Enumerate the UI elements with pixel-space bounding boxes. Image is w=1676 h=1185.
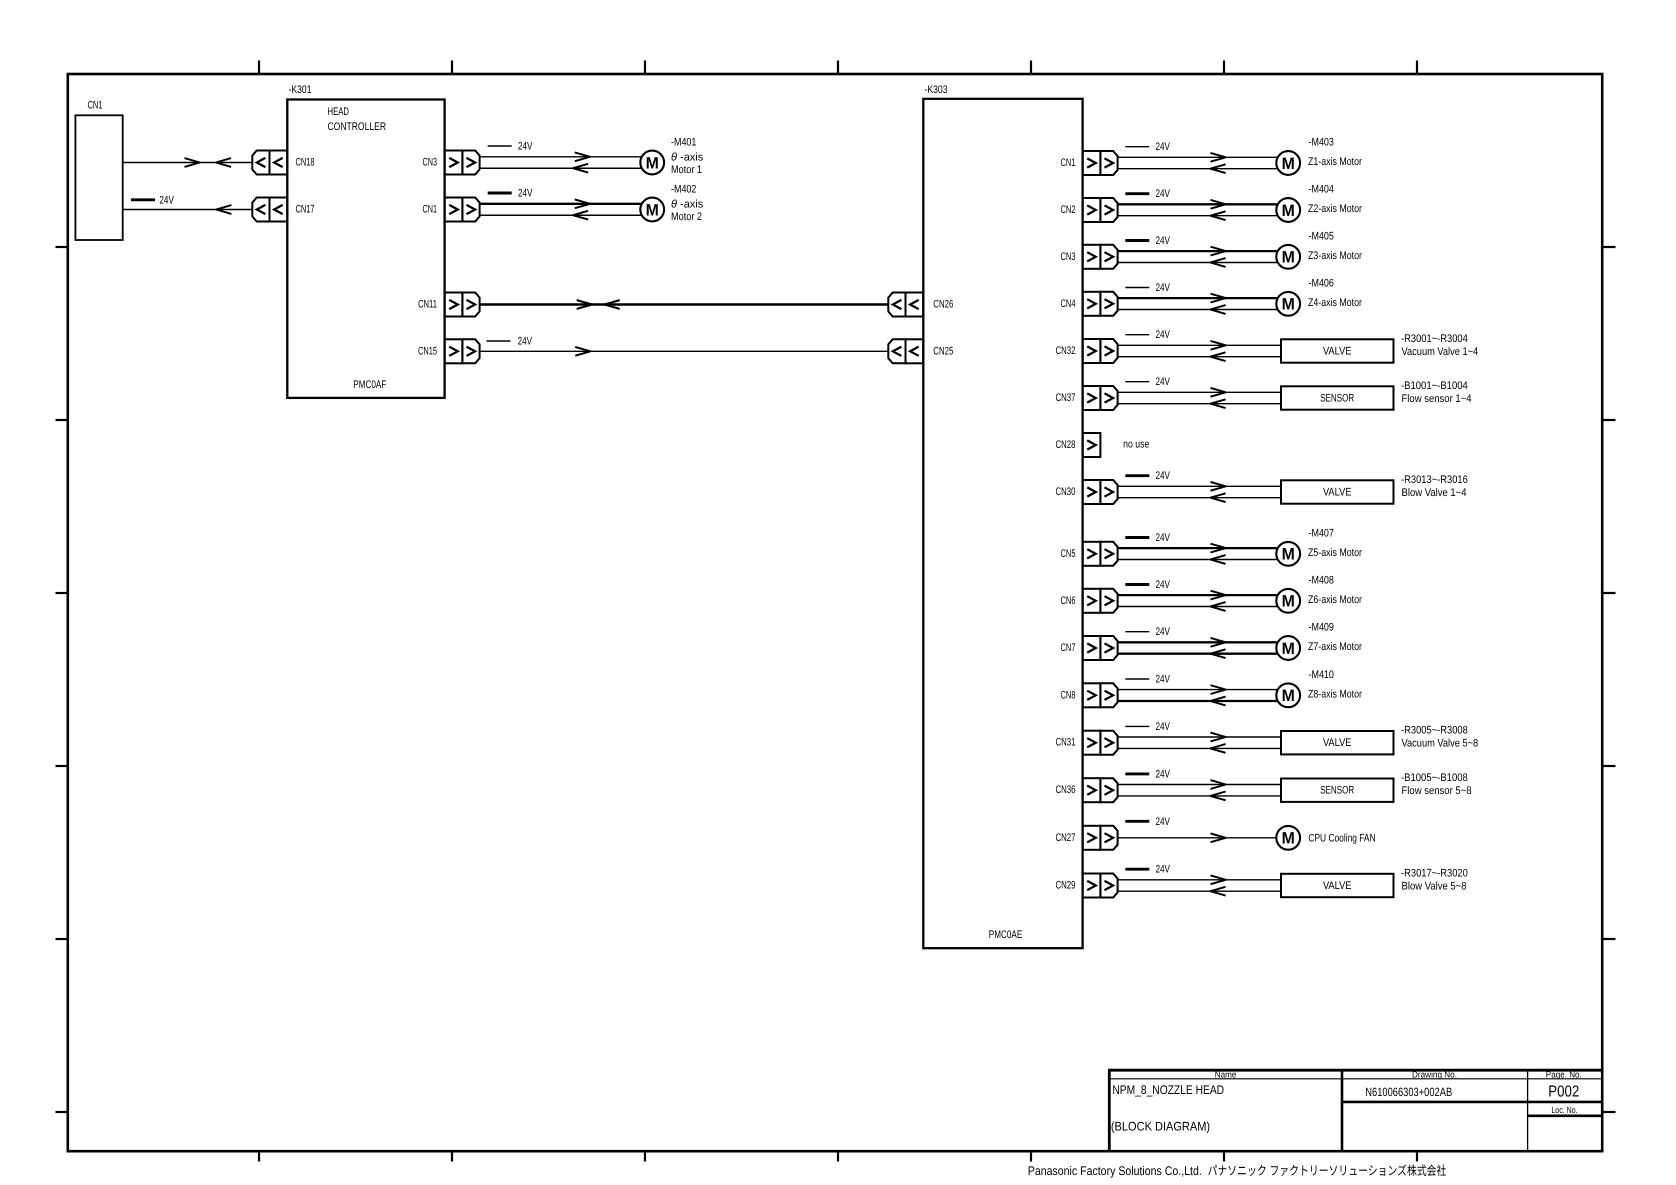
- svg-text:-M403: -M403: [1309, 137, 1334, 149]
- svg-text:VALVE: VALVE: [1323, 737, 1352, 749]
- svg-text:24V: 24V: [518, 141, 533, 153]
- connector K303 CN2: [1061, 198, 1118, 222]
- wire K303 to sensor group B1001-B1004 (24V pair): [1118, 376, 1281, 408]
- svg-text:24V: 24V: [1156, 470, 1171, 482]
- svg-text:SENSOR: SENSOR: [1320, 785, 1354, 797]
- sensor group B1005-B1008 -B1005~-B1008 Flow sensor 5~8: [1281, 772, 1472, 802]
- motor M407 Z5-axis Motor: [1276, 528, 1362, 566]
- svg-text:M: M: [646, 154, 659, 172]
- wire K303 to -M407 (24V pair): [1118, 532, 1277, 564]
- svg-text:24V: 24V: [1156, 376, 1171, 388]
- motor M401 theta-axis Motor 1: [640, 136, 703, 176]
- svg-text:CN26: CN26: [933, 299, 953, 311]
- svg-text:HEAD: HEAD: [328, 106, 350, 118]
- valve group R3017-R3020 -R3017~-R3020 Blow Valve 5~8: [1281, 867, 1468, 897]
- svg-text:24V: 24V: [1156, 188, 1171, 200]
- svg-text:M: M: [1282, 830, 1295, 848]
- svg-text:CN4: CN4: [1061, 298, 1076, 310]
- motor M406 Z4-axis Motor: [1276, 278, 1362, 316]
- wire K301 CN11 to K303 CN26: [480, 300, 889, 309]
- svg-text:CN18: CN18: [296, 157, 315, 169]
- svg-text:Panasonic Factory Solutions Co: Panasonic Factory Solutions Co.,Ltd.: [1028, 1164, 1202, 1178]
- svg-text:-B1001~-B1004: -B1001~-B1004: [1401, 380, 1468, 392]
- wire K303 to valve group R3017-R3020 (24V pair): [1118, 864, 1281, 896]
- wire K303 to -M403 (24V pair): [1118, 141, 1277, 173]
- svg-text:CN5: CN5: [1061, 548, 1076, 560]
- wire CN1 to K301 CN17, 24V: [123, 194, 253, 214]
- svg-text:CN11: CN11: [418, 299, 437, 311]
- svg-text:NPM_8_NOZZLE HEAD: NPM_8_NOZZLE HEAD: [1112, 1083, 1224, 1097]
- connector CN1 (external interface box): [75, 100, 122, 241]
- svg-text:SENSOR: SENSOR: [1320, 392, 1354, 404]
- svg-text:M: M: [1282, 155, 1295, 173]
- svg-text:Z2-axis Motor: Z2-axis Motor: [1308, 203, 1362, 215]
- svg-text:θ -axis: θ -axis: [671, 152, 704, 164]
- connector K303 CN37: [1056, 386, 1118, 410]
- svg-text:PMC0AE: PMC0AE: [989, 929, 1023, 941]
- svg-text:CN36: CN36: [1056, 784, 1076, 796]
- svg-text:-K303: -K303: [925, 84, 948, 96]
- svg-text:Z8-axis Motor: Z8-axis Motor: [1308, 689, 1362, 701]
- svg-text:CN17: CN17: [296, 204, 315, 216]
- connector K303 CN32: [1056, 339, 1118, 363]
- svg-text:CN2: CN2: [1061, 204, 1076, 216]
- valve group R3013-R3016 -R3013~-R3016 Blow Valve 1~4: [1281, 474, 1468, 504]
- motor M410 Z8-axis Motor: [1276, 669, 1362, 707]
- svg-text:Motor 2: Motor 2: [671, 211, 702, 223]
- svg-text:M: M: [1282, 296, 1295, 314]
- svg-text:24V: 24V: [1156, 721, 1171, 733]
- svg-text:24V: 24V: [159, 194, 174, 206]
- svg-text:Blow Valve 1~4: Blow Valve 1~4: [1402, 487, 1467, 499]
- sensor group B1001-B1004 -B1001~-B1004 Flow sensor 1~4: [1281, 380, 1472, 410]
- svg-text:(BLOCK DIAGRAM): (BLOCK DIAGRAM): [1111, 1120, 1210, 1134]
- svg-text:24V: 24V: [1156, 626, 1171, 638]
- motor M408 Z6-axis Motor: [1276, 575, 1362, 613]
- svg-text:CN32: CN32: [1056, 345, 1076, 357]
- svg-text:-M410: -M410: [1309, 669, 1334, 681]
- svg-text:M: M: [646, 201, 659, 219]
- wire K303 CN27 to CPU cooling fan, 24V: [1118, 816, 1277, 842]
- wire K301 CN3 to M401 (24V pair): [480, 141, 641, 173]
- svg-text:Blow Valve 5~8: Blow Valve 5~8: [1402, 881, 1467, 893]
- svg-text:24V: 24V: [1156, 329, 1171, 341]
- svg-text:Flow sensor 1~4: Flow sensor 1~4: [1402, 393, 1472, 405]
- svg-text:-M404: -M404: [1309, 184, 1334, 196]
- wire K303 to -M409 (24V pair): [1118, 626, 1277, 658]
- svg-text:24V: 24V: [1156, 532, 1171, 544]
- svg-text:θ -axis: θ -axis: [671, 199, 704, 211]
- svg-text:VALVE: VALVE: [1323, 486, 1352, 498]
- connector K301 CN17: [252, 198, 314, 222]
- connector K303 CN6: [1061, 589, 1118, 613]
- svg-text:24V: 24V: [1156, 141, 1171, 153]
- svg-text:-M402: -M402: [671, 183, 696, 195]
- svg-text:Flow sensor 5~8: Flow sensor 5~8: [1402, 785, 1472, 797]
- svg-text:Loc. No.: Loc. No.: [1551, 1105, 1577, 1115]
- svg-text:-M406: -M406: [1309, 278, 1334, 290]
- svg-text:-M401: -M401: [671, 136, 696, 148]
- svg-text:Z4-axis Motor: Z4-axis Motor: [1308, 297, 1362, 309]
- wire K303 to -M408 (24V pair): [1118, 579, 1277, 611]
- svg-text:24V: 24V: [1156, 816, 1171, 828]
- title block: [1108, 1069, 1602, 1151]
- connector K301 CN18: [252, 151, 314, 175]
- footer company name: [1028, 1164, 1447, 1178]
- connector K303 CN5: [1061, 542, 1118, 566]
- svg-text:24V: 24V: [1156, 235, 1171, 247]
- svg-text:P002: P002: [1548, 1083, 1579, 1100]
- wire K303 to valve group R3013-R3016 (24V pair): [1118, 470, 1281, 502]
- svg-text:-R3013~-R3016: -R3013~-R3016: [1401, 474, 1468, 486]
- svg-text:M: M: [1282, 202, 1295, 220]
- svg-text:Drawing No.: Drawing No.: [1412, 1069, 1457, 1079]
- svg-text:N610066303+002AB: N610066303+002AB: [1365, 1085, 1452, 1099]
- svg-text:-R3005~-R3008: -R3005~-R3008: [1401, 725, 1468, 737]
- svg-text:-M409: -M409: [1309, 622, 1334, 634]
- svg-text:24V: 24V: [1156, 768, 1171, 780]
- svg-text:CN28: CN28: [1056, 439, 1076, 451]
- connector K303 CN1: [1061, 151, 1118, 175]
- svg-text:CN37: CN37: [1056, 392, 1076, 404]
- svg-text:CN27: CN27: [1056, 832, 1076, 844]
- svg-text:CN29: CN29: [1056, 880, 1076, 892]
- wire K303 to -M410 (24V pair): [1118, 674, 1277, 706]
- svg-text:Name: Name: [1215, 1069, 1237, 1079]
- svg-text:Z6-axis Motor: Z6-axis Motor: [1308, 594, 1362, 606]
- wire K303 to valve group R3001-R3004 (24V pair): [1118, 329, 1281, 361]
- valve group R3005-R3008 -R3005~-R3008 Vacuum Valve 5~8: [1281, 725, 1478, 755]
- svg-text:CN1: CN1: [423, 204, 438, 216]
- valve group R3001-R3004 -R3001~-R3004 Vacuum Valve 1~4: [1281, 333, 1478, 363]
- wire K301 CN1 to M402 (24V pair): [480, 188, 641, 220]
- motor M403 Z1-axis Motor: [1276, 137, 1362, 175]
- svg-text:パナソニック ファクトリーソリューションズ株式会社: パナソニック ファクトリーソリューションズ株式会社: [1208, 1164, 1447, 1178]
- svg-text:CN31: CN31: [1056, 737, 1076, 749]
- svg-text:CPU Cooling FAN: CPU Cooling FAN: [1308, 832, 1375, 844]
- svg-text:PMC0AF: PMC0AF: [353, 379, 386, 391]
- connector K303 CN36: [1056, 778, 1118, 802]
- svg-text:M: M: [1282, 640, 1295, 658]
- svg-text:Vacuum Valve 5~8: Vacuum Valve 5~8: [1402, 738, 1479, 750]
- svg-text:24V: 24V: [518, 188, 533, 200]
- svg-text:CN25: CN25: [933, 345, 953, 357]
- svg-text:24V: 24V: [1156, 674, 1171, 686]
- svg-text:Z3-axis Motor: Z3-axis Motor: [1308, 250, 1362, 262]
- svg-text:CN6: CN6: [1061, 595, 1076, 607]
- svg-text:Vacuum Valve 1~4: Vacuum Valve 1~4: [1402, 346, 1479, 358]
- svg-text:M: M: [1282, 546, 1295, 564]
- motor CPU Cooling FAN: [1276, 826, 1375, 850]
- wire K303 to sensor group B1005-B1008 (24V pair): [1118, 768, 1281, 800]
- connector K303 CN31: [1056, 731, 1118, 755]
- svg-text:24V: 24V: [518, 336, 533, 348]
- svg-text:CN7: CN7: [1061, 642, 1076, 654]
- wire K303 to -M406 (24V pair): [1118, 282, 1277, 314]
- connector K303 CN7: [1061, 636, 1118, 660]
- svg-text:M: M: [1282, 249, 1295, 267]
- svg-text:Z7-axis Motor: Z7-axis Motor: [1308, 641, 1362, 653]
- svg-text:M: M: [1282, 593, 1295, 611]
- wire K301 CN15 to K303 CN25, 24V: [480, 336, 889, 356]
- svg-text:Z1-axis Motor: Z1-axis Motor: [1308, 156, 1362, 168]
- svg-text:CN1: CN1: [88, 100, 103, 112]
- motor M402 theta-axis Motor 2: [640, 183, 703, 223]
- svg-text:-R3017~-R3020: -R3017~-R3020: [1401, 867, 1468, 879]
- svg-text:CN30: CN30: [1056, 486, 1076, 498]
- wire CN1 to K301 CN18: [123, 158, 253, 167]
- svg-text:VALVE: VALVE: [1323, 345, 1352, 357]
- connector K301 CN3: [423, 151, 480, 175]
- block K301 HEAD CONTROLLER PMC0AF: [287, 84, 444, 398]
- svg-text:-M408: -M408: [1309, 575, 1334, 587]
- svg-text:CN3: CN3: [1061, 251, 1076, 263]
- svg-text:-M405: -M405: [1309, 231, 1334, 243]
- svg-text:24V: 24V: [1156, 579, 1171, 591]
- connector K303 CN28 (no use): [1056, 433, 1150, 457]
- block K303 PMC0AE: [923, 84, 1082, 948]
- connector K303 CN4: [1061, 292, 1118, 316]
- svg-text:-K301: -K301: [289, 84, 312, 96]
- svg-text:-R3001~-R3004: -R3001~-R3004: [1401, 333, 1468, 345]
- svg-text:CN1: CN1: [1061, 157, 1076, 169]
- svg-text:VALVE: VALVE: [1323, 880, 1352, 892]
- svg-text:CONTROLLER: CONTROLLER: [328, 121, 387, 133]
- connector K303 CN29: [1056, 874, 1118, 898]
- svg-text:CN3: CN3: [423, 157, 438, 169]
- svg-text:CN15: CN15: [418, 345, 437, 357]
- connector K303 CN8: [1061, 683, 1118, 707]
- connector K303 CN25: [888, 339, 953, 363]
- svg-text:Z5-axis Motor: Z5-axis Motor: [1308, 547, 1362, 559]
- connector K303 CN27: [1056, 826, 1118, 850]
- connector K303 CN3: [1061, 245, 1118, 269]
- svg-text:Motor 1: Motor 1: [671, 164, 702, 176]
- wire K303 to valve group R3005-R3008 (24V pair): [1118, 721, 1281, 753]
- svg-text:-B1005~-B1008: -B1005~-B1008: [1401, 772, 1468, 784]
- svg-text:-M407: -M407: [1309, 528, 1334, 540]
- connector K303 CN30: [1056, 480, 1118, 504]
- motor M405 Z3-axis Motor: [1276, 231, 1362, 269]
- svg-text:24V: 24V: [1156, 282, 1171, 294]
- svg-text:M: M: [1282, 687, 1295, 705]
- motor M404 Z2-axis Motor: [1276, 184, 1362, 222]
- connector K301 CN1: [423, 198, 480, 222]
- connector K301 CN15: [418, 339, 480, 363]
- svg-text:24V: 24V: [1156, 864, 1171, 876]
- connector K301 CN11: [418, 293, 480, 317]
- connector K303 CN26: [888, 293, 953, 317]
- svg-text:CN8: CN8: [1061, 689, 1076, 701]
- wire K303 to -M405 (24V pair): [1118, 235, 1277, 267]
- wire K303 to -M404 (24V pair): [1118, 188, 1277, 220]
- svg-text:Page. No.: Page. No.: [1546, 1069, 1582, 1079]
- svg-text:no use: no use: [1123, 439, 1149, 451]
- motor M409 Z7-axis Motor: [1276, 622, 1362, 660]
